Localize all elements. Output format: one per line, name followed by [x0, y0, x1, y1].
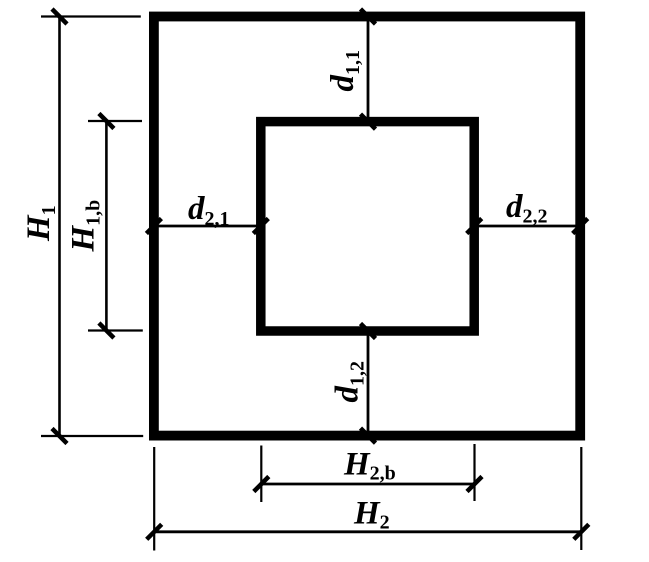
- tick H2 right: [574, 524, 589, 539]
- label d11 (rotated): [325, 50, 364, 92]
- dimension line H1b: [105, 121, 108, 331]
- dimension line d11: [367, 17, 370, 122]
- extension line H2b right: [473, 444, 475, 501]
- tick d12 bottom: [361, 428, 376, 443]
- tick d12 top: [361, 324, 376, 339]
- tick H1b top: [99, 114, 114, 129]
- label d22: [506, 189, 548, 228]
- extension line H2 left: [153, 447, 155, 551]
- outer square wall: [154, 17, 580, 436]
- extension line H2b left: [260, 446, 262, 503]
- dimension line d21: [154, 225, 261, 228]
- label H2b: [343, 447, 396, 485]
- dimension line H2: [154, 530, 581, 533]
- extension line H2 right: [580, 447, 582, 550]
- dimension line d22: [474, 225, 580, 228]
- tick d21 right: [253, 219, 268, 234]
- extension line H1b top: [88, 120, 142, 122]
- tick H2 left: [147, 524, 162, 539]
- label H1 (rotated): [21, 205, 60, 242]
- label d12 (rotated): [330, 361, 369, 403]
- label H2: [353, 495, 390, 533]
- tick H2b left: [254, 477, 269, 492]
- inner square wall: [261, 122, 474, 331]
- extension line H1b bottom: [88, 329, 143, 331]
- tick d21 left: [146, 219, 161, 234]
- dimension line d12: [367, 331, 370, 436]
- tick d11 bottom: [361, 114, 376, 129]
- label H1b (rotated): [66, 200, 105, 253]
- label d21: [188, 191, 230, 230]
- tick H1 top: [52, 9, 67, 24]
- tick d22 left: [467, 219, 482, 234]
- extension line H1 bottom: [41, 435, 143, 437]
- extension line H1 top: [41, 15, 141, 17]
- dimension line H2b: [261, 483, 474, 486]
- dimension line H1: [58, 17, 61, 437]
- tick d22 right: [573, 219, 588, 234]
- tick H1 bottom: [52, 429, 67, 444]
- tick H2b right: [467, 477, 482, 492]
- tick H1b bottom: [99, 323, 114, 338]
- tick d11 top: [361, 9, 376, 24]
